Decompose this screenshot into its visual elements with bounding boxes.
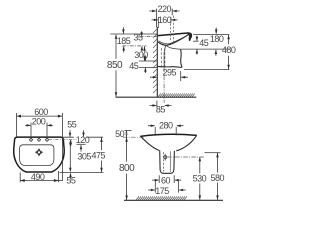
svg-text:280: 280 (159, 121, 173, 131)
fixing hole level line (dash-dot) (122, 45, 146, 47)
bracket level line left (139, 60, 157, 62)
svg-text:35: 35 (133, 33, 143, 43)
svg-text:490: 490 (31, 172, 45, 182)
basin funnel left edge (140, 136, 159, 150)
dim 480 (222, 35, 236, 70)
dim 35 (133, 31, 143, 51)
dim 475 (92, 137, 106, 172)
tap centerline dashed (49, 139, 77, 141)
dim 175 (148, 181, 186, 196)
rim front bottom extension line (193, 40, 199, 42)
dim 530 (193, 157, 207, 200)
drain pipe hidden line left (160, 48, 162, 67)
svg-text:475: 475 (92, 150, 106, 160)
svg-text:55: 55 (66, 176, 76, 186)
drain connection symbol (164, 154, 167, 161)
floor hatching (158, 94, 195, 97)
dim 850 (107, 34, 123, 97)
dim 295 (150, 68, 188, 81)
tap hole left (29, 138, 32, 141)
dim 120 (76, 130, 90, 151)
inner bowl outline (20, 145, 54, 166)
basin shroud front (181, 49, 182, 67)
rim level extension line right (193, 34, 229, 36)
drain symbol (35, 148, 43, 156)
120 bottom extension line (77, 143, 86, 145)
dim 490 (20, 171, 58, 182)
svg-text:160: 160 (158, 15, 172, 25)
svg-text:45: 45 (129, 61, 139, 71)
svg-text:175: 175 (155, 186, 169, 196)
580 top extension line (205, 152, 221, 154)
dim 55 top (67, 119, 77, 146)
dim 45 left (129, 55, 146, 73)
dim 55 bottom (58, 173, 75, 186)
floor line (116, 96, 197, 98)
bowl bottom level extension line (181, 48, 229, 50)
basin bowl inner curve (158, 34, 190, 45)
dim 160 (152, 15, 178, 28)
tap hole center (37, 138, 40, 141)
underside level line left (139, 66, 157, 68)
svg-text:800: 800 (119, 163, 135, 174)
back edge extension line (63, 136, 103, 138)
extension dashes from 160 ticks into bowl (171, 16, 174, 43)
tap hole right (45, 138, 48, 141)
dim 180 (210, 28, 224, 56)
pedestal outline (160, 151, 175, 174)
drain centerline dash-dot (167, 156, 205, 158)
dim 600 (17, 107, 63, 181)
dim 60 (152, 175, 181, 185)
svg-text:200: 200 (32, 116, 46, 126)
wall line (156, 27, 158, 97)
dim 580 (211, 153, 225, 200)
dim 305 (69, 140, 91, 172)
svg-text:55: 55 (67, 119, 77, 129)
dim 50 (115, 129, 143, 143)
dim 220 (149, 4, 179, 28)
svg-text:180: 180 (210, 34, 224, 44)
svg-text:45: 45 (199, 38, 209, 48)
svg-text:850: 850 (107, 60, 123, 71)
dim 185 (117, 27, 131, 52)
dim 800 (119, 137, 135, 200)
svg-text:600: 600 (34, 107, 48, 117)
basin underside crease (167, 45, 181, 49)
svg-text:295: 295 (163, 68, 177, 78)
wall hatching (153, 29, 157, 93)
svg-text:185: 185 (117, 36, 131, 46)
svg-text:480: 480 (222, 45, 236, 55)
svg-text:220: 220 (158, 4, 172, 14)
dim 45 right (196, 36, 209, 55)
rim level extension line left (110, 33, 157, 35)
floor line (124, 199, 223, 201)
dim 85 (150, 101, 172, 115)
svg-text:580: 580 (211, 173, 225, 183)
svg-text:305: 305 (77, 152, 91, 162)
dim 300 (134, 46, 148, 61)
basin funnel right edge (176, 135, 196, 151)
basin profile rim (158, 33, 192, 41)
svg-text:50: 50 (115, 129, 125, 139)
drain pipe hidden line right (164, 48, 166, 67)
svg-text:60: 60 (161, 176, 171, 186)
dim 280 (148, 121, 183, 136)
basin shroud back edge (164, 45, 166, 66)
svg-text:85: 85 (156, 104, 166, 114)
tap deck level line (140, 36, 157, 38)
dim 200 (25, 116, 53, 139)
svg-text:120: 120 (76, 135, 90, 145)
floor hatching (136, 196, 187, 200)
svg-text:530: 530 (193, 174, 207, 184)
480 bottom extension line (184, 69, 229, 71)
basin bowl inner curve 2 (159, 35, 189, 44)
basin bottom edge (158, 66, 182, 67)
basin outer outline (14, 137, 65, 172)
pedestal hidden drain lines (163, 152, 165, 172)
basin top rim arc (140, 134, 196, 136)
front edge extension line (60, 171, 104, 173)
